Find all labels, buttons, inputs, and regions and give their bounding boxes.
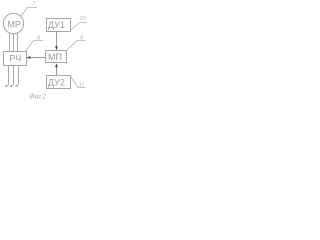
arrow МП to РЧ bbox=[30, 57, 46, 59]
svg-text:МП: МП bbox=[48, 52, 62, 62]
svg-text:9: 9 bbox=[80, 34, 83, 41]
block ДУ1 bbox=[47, 19, 71, 32]
wire МР to РЧ phase 2 bbox=[13, 34, 15, 52]
svg-text:10: 10 bbox=[79, 15, 86, 22]
svg-text:РЧ: РЧ bbox=[9, 54, 21, 64]
block МП bbox=[46, 51, 67, 63]
block ДУ2 bbox=[47, 76, 71, 89]
block РЧ bbox=[4, 52, 27, 66]
svg-text:МР: МР bbox=[7, 20, 21, 30]
block МР (motor) circle bbox=[3, 13, 23, 33]
svg-text:11: 11 bbox=[79, 82, 85, 89]
svg-text:Фиг.2: Фиг.2 bbox=[29, 93, 47, 101]
wire МР to РЧ phase 1 bbox=[9, 33, 11, 52]
leader line to callout 7 bbox=[21, 8, 38, 17]
leader line to callout 10 bbox=[71, 23, 88, 31]
arrow ДУ2 to МП bbox=[56, 67, 58, 76]
output wire below РЧ phase 1 with hook bbox=[6, 66, 8, 87]
wire МР to РЧ phase 3 bbox=[17, 33, 19, 52]
leader line to callout 8 bbox=[26, 41, 43, 51]
svg-text:ДУ1: ДУ1 bbox=[48, 20, 65, 30]
svg-text:7: 7 bbox=[32, 1, 36, 8]
svg-text:ДУ2: ДУ2 bbox=[48, 77, 65, 87]
leader line to callout 9 bbox=[67, 41, 86, 50]
arrow ДУ1 to МП bbox=[56, 32, 58, 48]
output wire below РЧ phase 2 with hook bbox=[11, 66, 13, 87]
leader line to callout 11 bbox=[70, 76, 85, 88]
output wire below РЧ phase 3 with hook bbox=[16, 66, 18, 87]
